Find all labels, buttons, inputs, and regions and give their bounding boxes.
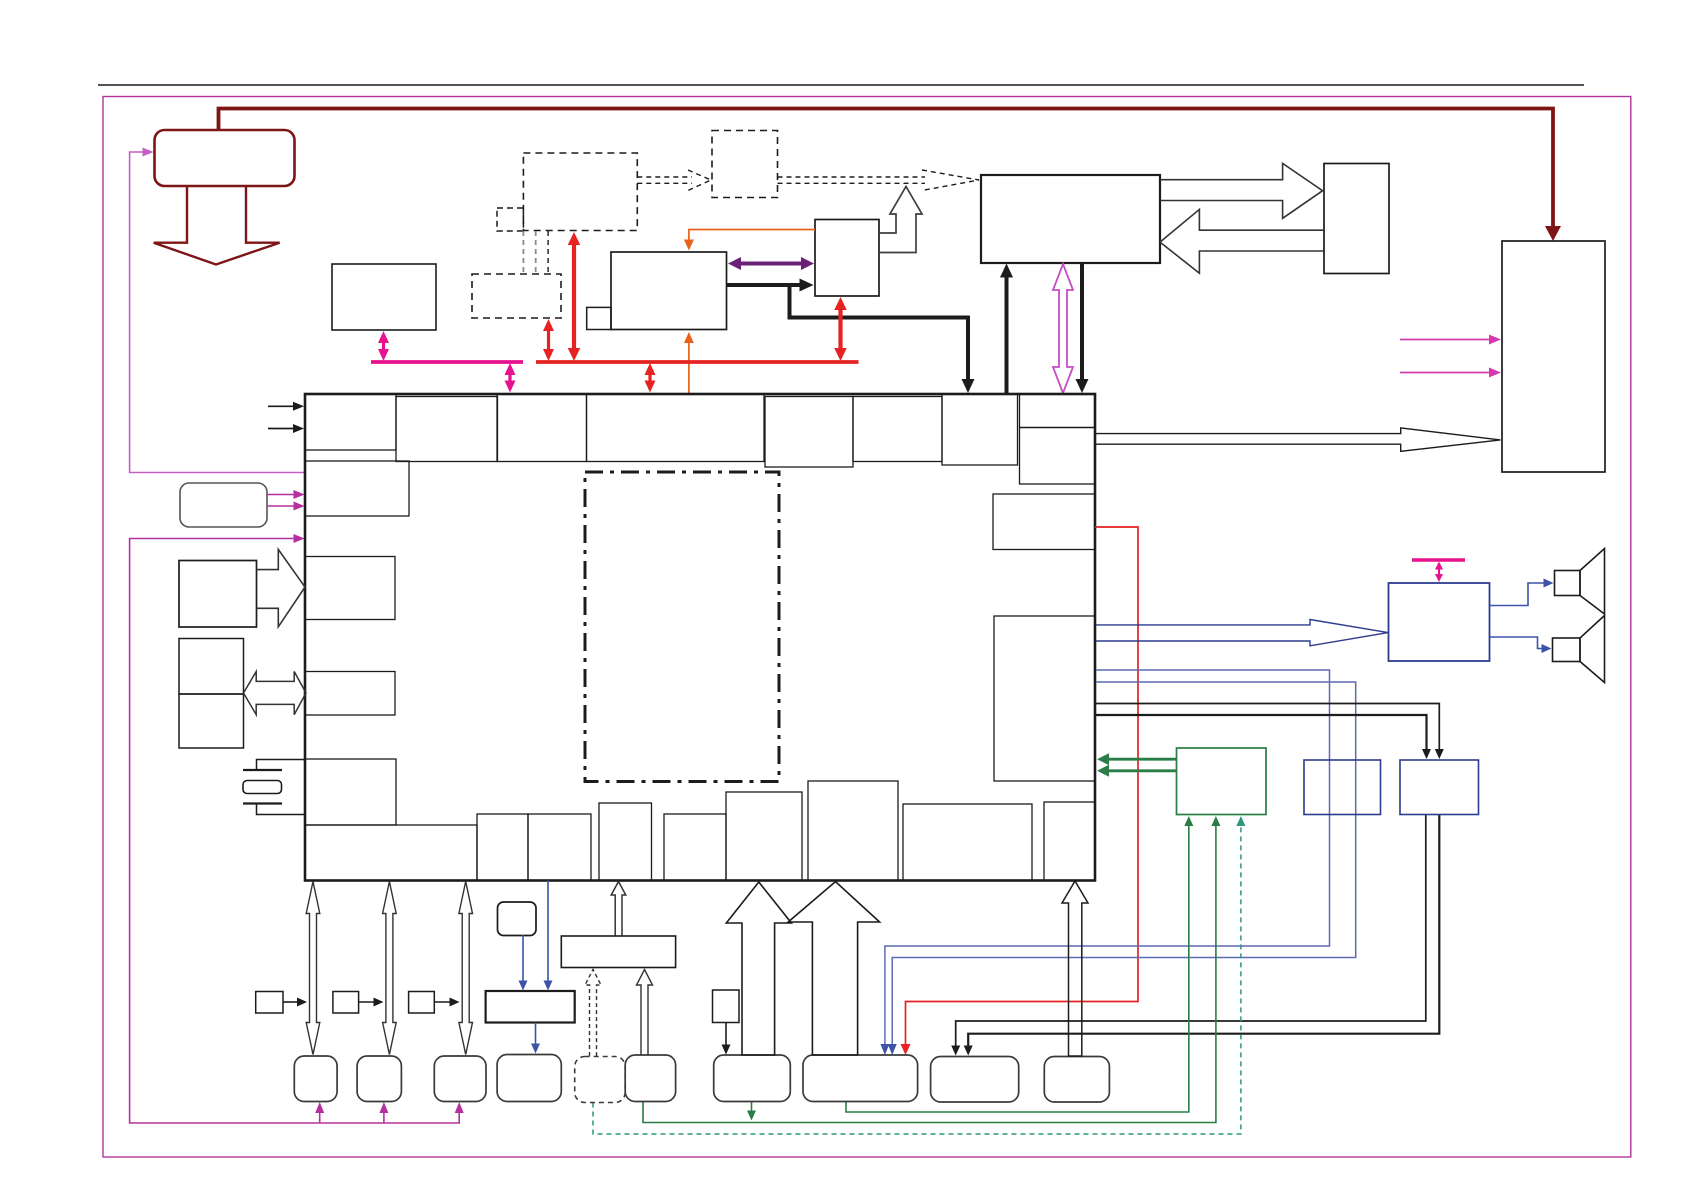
SoC main block <box>305 394 1095 881</box>
SoC top box 3b <box>853 397 942 462</box>
magenta bar over amp <box>1412 558 1465 561</box>
block right of demod <box>815 220 879 297</box>
magenta arrow lvds2 <box>1400 372 1492 374</box>
blue arrow kb down <box>522 935 524 983</box>
hollow double arrow tuner3 <box>459 882 473 1055</box>
block usb ext a <box>179 639 244 695</box>
crystal oscillator <box>257 760 306 771</box>
SoC bottom box 8 <box>1044 802 1095 881</box>
dashed arrow b top <box>778 176 926 178</box>
SoC bottom-left wide box <box>305 825 477 881</box>
magenta bus <box>371 360 523 364</box>
black arrow down from DDR <box>1080 264 1084 382</box>
SoC bottom box 1 <box>477 814 528 881</box>
SoC left box 2 <box>305 557 395 620</box>
block DDR big <box>981 175 1160 263</box>
small square ant <box>409 992 435 1014</box>
red tall double arrow <box>572 243 576 350</box>
dashed block mid <box>712 131 778 198</box>
dash-dot inner box <box>585 472 779 782</box>
block eeprom bar <box>486 991 575 1023</box>
hollow double arrow usb <box>244 672 307 715</box>
green riser T7 <box>846 824 1189 1112</box>
SoC bottom box 4 <box>664 814 726 881</box>
block demod tab <box>587 307 611 329</box>
blue arrow bar to T4 <box>535 1023 537 1046</box>
orange wire up from SoC <box>688 340 690 394</box>
magenta double arrow bus-SoC <box>508 373 511 383</box>
small rounded block kb <box>498 902 537 936</box>
block demod center <box>611 252 727 330</box>
small square ant <box>333 992 359 1014</box>
SoC bottom box 7 <box>903 804 1032 881</box>
audio open arrow to amp <box>1096 620 1388 646</box>
long hollow arrow to panel <box>1096 428 1500 451</box>
speaker left <box>1553 638 1581 662</box>
IR arrow 2 <box>267 505 295 507</box>
blue line SoC down <box>547 881 549 983</box>
IR arrow 1 <box>267 494 295 496</box>
gray dashed connector 1 <box>522 231 524 274</box>
blue net i2s b <box>892 682 1355 1046</box>
violet riser arrow <box>319 1105 321 1123</box>
red double arrow dashed-bus <box>547 329 550 351</box>
rounded block T7 <box>803 1055 918 1102</box>
SoC bottom box 6 <box>808 781 898 881</box>
rounded block T3 <box>434 1056 486 1102</box>
orange wire down into demod <box>689 230 815 243</box>
SoC right box 1 <box>993 494 1095 550</box>
blue net i2s a <box>885 670 1330 1046</box>
dashed connector 3 <box>547 231 549 274</box>
big hollow up arrow B <box>788 882 879 1055</box>
small square ant <box>256 992 283 1014</box>
block right mem <box>1324 164 1389 274</box>
title separator line <box>98 84 1584 86</box>
SoC top box 2 <box>497 394 587 462</box>
red net SoC to bottom T7 <box>906 527 1139 1046</box>
purple double arrow <box>740 262 802 266</box>
SoC top box 1 <box>305 394 396 450</box>
red double arrow block-bus <box>838 308 842 350</box>
black thick arrow to right block <box>727 283 801 287</box>
block hdmi ext <box>179 561 257 628</box>
big hollow arrow right <box>1160 163 1323 218</box>
black arrow up to DDR <box>1005 275 1009 394</box>
black net to wifi b <box>1096 715 1427 751</box>
block audio amp <box>1389 583 1490 661</box>
SoC bottom box 5 <box>726 792 802 881</box>
long flat block <box>561 936 675 968</box>
black net wifi to T8 b <box>968 815 1439 1048</box>
rounded block T2 <box>357 1056 401 1102</box>
rounded block T9 <box>1044 1057 1109 1103</box>
green riser T5 <box>643 824 1216 1123</box>
dashed arrow b head <box>922 170 979 191</box>
block panel tall <box>1502 241 1605 472</box>
dashed block small attach <box>497 208 523 231</box>
block tuner-left <box>332 264 436 330</box>
gray dashed connector 2 <box>535 231 537 274</box>
maroon thick wire to panel block <box>219 109 1554 231</box>
dashed block lower <box>472 274 561 318</box>
red double arrow bus-SoC <box>648 373 651 383</box>
cvbs arrow 1 <box>268 405 295 407</box>
dashed block big <box>523 153 637 231</box>
blue arrow spk2 <box>1490 637 1544 649</box>
small square T6 src <box>713 990 740 1023</box>
dashed arrow a top <box>637 176 692 178</box>
SoC bottom box 3 <box>599 803 652 881</box>
rounded block T8 <box>931 1057 1019 1103</box>
green arrow a <box>1108 758 1177 761</box>
black thick branch into SoC <box>790 285 969 381</box>
teal dashed net <box>593 824 1241 1134</box>
hollow double arrow tuner2 <box>383 882 397 1055</box>
hollow up arrow long block <box>611 882 626 936</box>
block tuner ext a <box>1304 760 1381 815</box>
SoC left box 1 <box>305 461 409 516</box>
dashed rounded block <box>575 1057 626 1103</box>
black net to wifi a <box>1096 704 1439 752</box>
block wifi ext <box>1400 760 1479 815</box>
magenta arrow lvds1 <box>1400 339 1492 341</box>
SoC left box 4 <box>305 759 396 825</box>
violet wire bottom loop <box>130 539 460 1124</box>
violet riser arrow <box>458 1105 460 1123</box>
maroon rounded block (power) <box>155 130 295 186</box>
hollow bent up arrow <box>879 187 922 253</box>
SoC top box 1b <box>396 397 498 462</box>
SoC top box wide <box>587 394 765 462</box>
block green power <box>1177 748 1267 815</box>
big hollow up arrow C <box>1062 881 1088 1056</box>
rounded block T4 <box>497 1055 561 1102</box>
SoC right box 2 <box>994 616 1095 781</box>
green arrow b <box>1108 769 1177 772</box>
rounded block T5 <box>625 1055 675 1102</box>
magenta double arrow box-bus <box>382 341 385 351</box>
small rounded block (IR) <box>180 483 267 527</box>
maroon hollow down arrow <box>154 187 280 265</box>
rounded block T6 <box>714 1055 791 1102</box>
SoC bottom box 2 <box>528 814 591 881</box>
violet wire top loop <box>130 152 304 473</box>
hollow double arrow tuner1 <box>306 882 320 1055</box>
dashed hollow up arrow <box>585 970 601 1057</box>
SoC top-right box a <box>1020 394 1096 428</box>
blue arrow spk1 <box>1490 583 1546 606</box>
block usb ext b <box>179 694 244 748</box>
black net wifi to T8 a <box>956 815 1426 1048</box>
cvbs arrow 2 <box>268 428 295 430</box>
red bus <box>536 360 859 364</box>
SoC top box 4 <box>942 394 1018 465</box>
hollow up arrow T5 <box>637 970 653 1056</box>
magenta small double arrow <box>1438 568 1440 577</box>
green drop T6 <box>751 1102 753 1113</box>
violet riser arrow <box>383 1105 385 1123</box>
dashed arrow a head <box>688 170 711 191</box>
big hollow arrow left <box>1160 209 1325 273</box>
SoC top box 3 <box>765 397 853 468</box>
speaker right <box>1555 571 1581 596</box>
hollow arrow hdmi into SoC <box>257 549 306 626</box>
big hollow up arrow A <box>726 882 791 1055</box>
arrow into T6 <box>725 1023 727 1047</box>
rounded block T1 <box>294 1056 337 1102</box>
SoC left box 3 <box>305 672 395 716</box>
orchid hollow double arrow <box>1053 264 1073 393</box>
SoC top-right box b <box>1020 428 1096 485</box>
